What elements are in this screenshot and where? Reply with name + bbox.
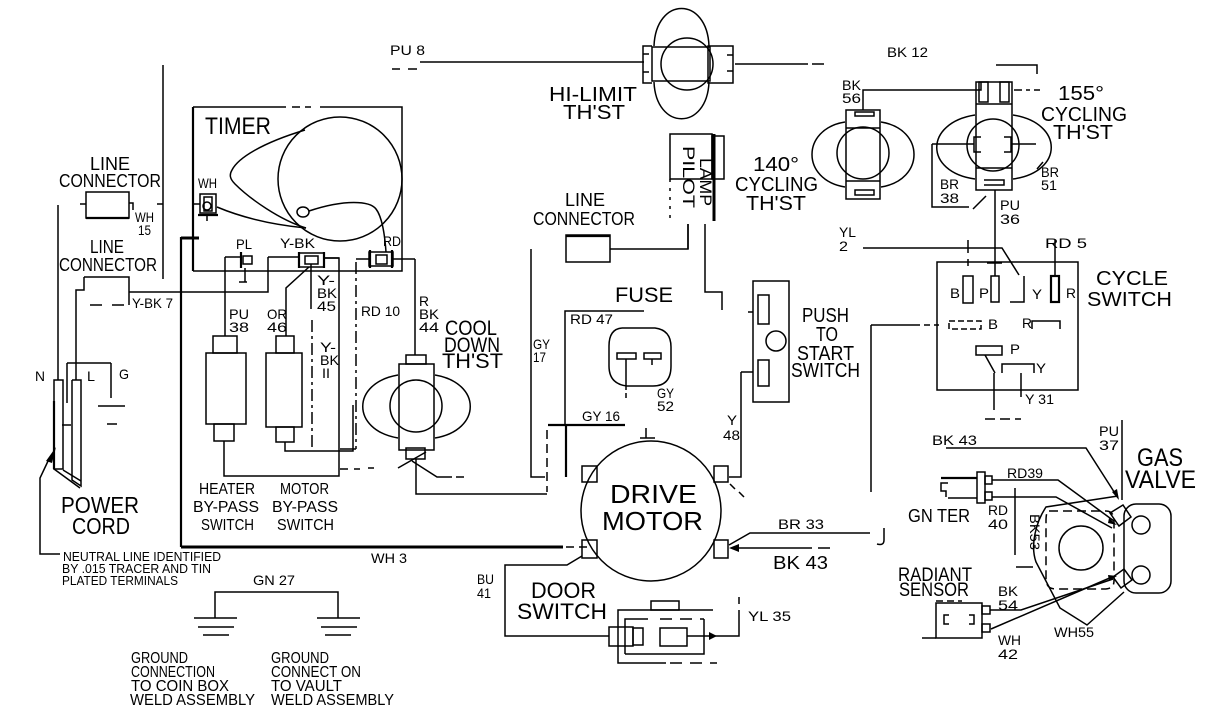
ground symbol power cord <box>98 406 125 424</box>
svg-text:PU 8: PU 8 <box>390 42 425 58</box>
svg-text:RD 47: RD 47 <box>570 311 613 327</box>
svg-text:TH'ST: TH'ST <box>563 102 625 124</box>
svg-text:WH: WH <box>198 175 217 191</box>
wire RD 10 dashed <box>340 262 400 469</box>
label 155 cycling th'st <box>1041 83 1127 144</box>
ground symbol vault <box>317 618 360 635</box>
svg-text:DRIVE: DRIVE <box>610 479 697 509</box>
label GY 52 <box>657 385 675 414</box>
svg-text:41: 41 <box>477 585 491 601</box>
gas valve <box>1034 496 1171 625</box>
wire RD39 <box>992 465 1114 521</box>
svg-text:51: 51 <box>1041 177 1057 193</box>
timer contact Y-BK <box>268 235 339 268</box>
wire BU 41 <box>477 556 609 636</box>
svg-text:38: 38 <box>229 319 249 335</box>
wire GY 16 <box>547 408 625 492</box>
svg-text:TH'ST: TH'ST <box>442 350 503 373</box>
svg-text:52: 52 <box>657 398 674 414</box>
svg-text:PLATED TERMINALS: PLATED TERMINALS <box>62 573 178 588</box>
door switch <box>609 601 717 663</box>
svg-text:LINE: LINE <box>565 190 605 210</box>
timer contact WH <box>193 175 218 221</box>
svg-text:RD: RD <box>383 233 401 249</box>
svg-text:PL: PL <box>236 236 252 252</box>
note neutral line <box>62 549 221 588</box>
wire PU 38 <box>225 292 249 336</box>
svg-text:WH 3: WH 3 <box>371 550 407 566</box>
svg-text:HEATER: HEATER <box>199 481 255 498</box>
svg-text:Y: Y <box>1036 360 1047 376</box>
wire PU 37 <box>1099 420 1122 500</box>
svg-text:GY 16: GY 16 <box>582 408 620 424</box>
svg-text:R: R <box>1022 315 1032 331</box>
timer contact PL <box>225 236 252 282</box>
wire BK 54 <box>990 579 1113 613</box>
svg-text:CONNECTOR: CONNECTOR <box>59 171 161 191</box>
svg-text:B: B <box>988 316 998 332</box>
wire BK 12 <box>735 44 1037 74</box>
svg-text:RD39: RD39 <box>1007 465 1043 481</box>
svg-text:TIMER: TIMER <box>205 113 271 140</box>
svg-text:P: P <box>979 285 989 301</box>
svg-text:MOTOR: MOTOR <box>602 506 703 536</box>
connector radiant sensor <box>922 601 990 638</box>
svg-text:YL 35: YL 35 <box>748 608 791 624</box>
svg-text:R: R <box>1066 285 1076 301</box>
svg-text:Y-BK 7: Y-BK 7 <box>132 295 173 311</box>
label 140 cycling th'st <box>735 154 818 215</box>
svg-text:WELD ASSEMBLY: WELD ASSEMBLY <box>271 692 394 709</box>
svg-text:46: 46 <box>267 319 287 335</box>
svg-text:WH55: WH55 <box>1054 624 1094 640</box>
wire RD 40 <box>988 497 1117 532</box>
svg-text:40: 40 <box>988 516 1008 532</box>
svg-text:G: G <box>119 366 129 382</box>
svg-text:SWITCH: SWITCH <box>277 517 334 534</box>
svg-text:WELD ASSEMBLY: WELD ASSEMBLY <box>130 692 255 709</box>
wire BK 43 motor <box>729 544 830 573</box>
wire BR 38 <box>932 144 986 209</box>
svg-text:P: P <box>1010 341 1020 357</box>
svg-text:CONNECTOR: CONNECTOR <box>533 209 635 229</box>
svg-text:SWITCH: SWITCH <box>1087 289 1172 311</box>
svg-text:48: 48 <box>723 427 740 443</box>
svg-text:BK 43: BK 43 <box>773 553 828 573</box>
svg-text:17: 17 <box>533 349 546 365</box>
wire RD 5 <box>1045 235 1087 276</box>
power cord <box>35 363 129 488</box>
label push to start switch <box>791 305 860 382</box>
svg-text:140°: 140° <box>753 154 799 176</box>
svg-text:CYCLE: CYCLE <box>1096 268 1168 290</box>
power cord L wire <box>75 294 77 380</box>
svg-text:RD 10: RD 10 <box>361 303 400 319</box>
wire R BK 44 <box>415 259 440 355</box>
label cycle switch <box>1087 268 1172 311</box>
wire Y 48 <box>723 372 753 497</box>
line connector 2 <box>59 237 173 311</box>
timer contact RD <box>356 233 415 268</box>
ground bracket GN 27 <box>215 572 338 618</box>
wire BR 33 <box>729 516 884 545</box>
svg-text:SENSOR: SENSOR <box>899 580 969 601</box>
svg-text:B: B <box>950 285 960 301</box>
svg-text:GN 27: GN 27 <box>253 572 295 588</box>
svg-text:56: 56 <box>842 90 861 106</box>
wire PU 36 <box>987 190 1020 276</box>
timer cam follower curve <box>217 130 386 252</box>
svg-text:SWITCH: SWITCH <box>517 599 607 624</box>
wire WH 42 <box>991 575 1117 662</box>
svg-text:L: L <box>87 368 95 384</box>
wire BK 56 <box>842 77 981 110</box>
wire B contact to BR33 junction <box>871 325 939 492</box>
heater by-pass switch <box>206 258 339 476</box>
wire YL 35 <box>687 597 791 640</box>
svg-text:FUSE: FUSE <box>615 284 673 307</box>
fuse box corner <box>565 311 644 425</box>
thermostat 155 cycling <box>932 82 1051 190</box>
svg-text:LINE: LINE <box>90 237 124 257</box>
wire Y 31 <box>985 373 1054 419</box>
wire cool down to GY16 <box>416 459 547 494</box>
svg-text:SWITCH: SWITCH <box>201 517 254 534</box>
ground symbol coin box <box>194 618 237 635</box>
svg-text:BR 33: BR 33 <box>778 516 824 532</box>
timer cam circle <box>278 117 402 241</box>
svg-text:GN TER: GN TER <box>908 506 970 526</box>
wire WH 3 <box>181 547 587 566</box>
svg-text:37: 37 <box>1099 437 1119 453</box>
svg-text:Y: Y <box>1032 286 1043 302</box>
label BR 51 <box>1037 162 1059 193</box>
wire pilot lamp to push switch <box>705 224 722 310</box>
svg-text:SWITCH: SWITCH <box>791 360 860 382</box>
svg-text:45: 45 <box>317 298 336 314</box>
svg-text:LAMP: LAMP <box>696 158 715 206</box>
svg-text:VALVE: VALVE <box>1125 466 1196 494</box>
svg-text:N: N <box>35 368 45 384</box>
svg-text:BK 43: BK 43 <box>932 432 977 448</box>
wire GY 17 <box>531 249 551 477</box>
svg-text:42: 42 <box>998 646 1018 662</box>
label ground connection coin box <box>130 650 255 709</box>
line connector 1 <box>59 154 161 238</box>
label hi-limit th'st <box>549 84 637 124</box>
push to start switch <box>748 281 789 402</box>
power cord neutral wire <box>57 205 59 380</box>
svg-text:RD 5: RD 5 <box>1045 235 1087 251</box>
svg-text:TH'ST: TH'ST <box>1053 122 1113 144</box>
wire OR 46 <box>267 267 309 336</box>
label ground connection vault <box>271 650 394 709</box>
svg-text:Y: Y <box>727 412 738 428</box>
label heater by-pass switch <box>193 481 259 534</box>
svg-text:BK 12: BK 12 <box>887 44 928 60</box>
label motor by-pass switch <box>272 481 338 534</box>
connector GN TER <box>908 472 992 526</box>
svg-text:2: 2 <box>839 238 848 254</box>
thermostat 140 cycling <box>812 110 914 199</box>
wire PU 8 <box>390 42 644 69</box>
wire Y-BK 7 <box>129 257 268 292</box>
svg-text:CONNECTOR: CONNECTOR <box>59 255 157 275</box>
line connector center <box>533 190 688 262</box>
motor by-pass switch <box>266 336 353 451</box>
svg-text:PILOT: PILOT <box>679 146 698 208</box>
heavy bus wire left <box>181 237 199 547</box>
cycle switch <box>937 262 1078 390</box>
svg-text:BY-PASS: BY-PASS <box>193 499 259 516</box>
thermostat hi-limit <box>643 9 733 119</box>
wire BK 43 to gas valve <box>932 432 1119 500</box>
wire WH 15 vertical <box>157 65 163 279</box>
svg-text:MOTOR: MOTOR <box>280 481 329 498</box>
svg-text:44: 44 <box>419 319 439 335</box>
drive motor <box>581 428 728 581</box>
svg-text:Y 31: Y 31 <box>1025 391 1054 407</box>
label cool down th'st <box>442 317 503 373</box>
wire BK53 <box>1015 488 1043 567</box>
timer box <box>193 107 402 271</box>
pilot lamp <box>670 134 724 221</box>
fuse <box>609 328 671 398</box>
svg-text:BY-PASS: BY-PASS <box>272 499 338 516</box>
wire YL 2 <box>839 224 1019 275</box>
svg-text:155°: 155° <box>1058 83 1104 105</box>
neutral callout arrow <box>40 447 60 554</box>
svg-text:38: 38 <box>940 190 959 206</box>
svg-text:Y-BK: Y-BK <box>280 235 316 251</box>
label power cord <box>61 492 139 539</box>
label radiant sensor <box>898 565 972 601</box>
label gas valve <box>1125 444 1196 494</box>
label Y-BK 11 <box>320 339 340 381</box>
wire Y-BK 45 <box>311 268 338 450</box>
label door switch <box>517 578 607 624</box>
svg-text:CORD: CORD <box>72 513 130 539</box>
svg-text:15: 15 <box>138 222 151 238</box>
svg-text:TH'ST: TH'ST <box>746 193 806 215</box>
svg-text:36: 36 <box>1000 211 1020 227</box>
thermostat cool down <box>363 355 471 477</box>
svg-text:II: II <box>322 365 330 381</box>
